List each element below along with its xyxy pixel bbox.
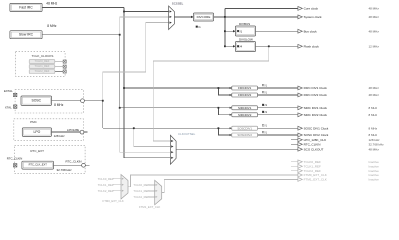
svg-text:FTM1_EXT_CLK: FTM1_EXT_CLK — [304, 178, 327, 182]
block DIVCORE — [193, 13, 213, 21]
input arrow CLKOUTSEL in1 — [171, 140, 173, 142]
svg-text:Inactive: Inactive — [369, 178, 380, 182]
block TCLK2_REF source — [29, 69, 55, 73]
svg-text:FIRCDIV1: FIRCDIV1 — [238, 86, 252, 90]
input arrow SCSSEL in1 — [170, 10, 172, 12]
svg-text:/4: /4 — [240, 45, 243, 49]
block RTC_CLK_EXT — [22, 161, 54, 169]
svg-text:48 MHz: 48 MHz — [369, 7, 380, 11]
svg-text:48 MHz: 48 MHz — [369, 147, 380, 151]
wire SIRC grey down to CLKOUTSEL in3 — [120, 108, 171, 152]
value FIRCDIV2 value — [262, 90, 267, 94]
junction FIRC-SCSSEL tap — [123, 11, 125, 13]
svg-text:RTC_EXT: RTC_EXT — [30, 149, 44, 153]
svg-text:TCLK0_REF: TCLK0_REF — [304, 160, 321, 164]
junction system bus node — [224, 16, 226, 18]
output arrow SIRC DIV1 Clock — [298, 106, 302, 110]
block SOSCDIV2 — [232, 133, 258, 137]
svg-text:SOSC: SOSC — [31, 99, 41, 103]
block DIVSLOW — [235, 42, 255, 52]
mux CLKOUTSEL — [170, 135, 176, 164]
svg-text:TCLK1_REF: TCLK1_REF — [133, 189, 149, 193]
input arrow SOSCDIV2 in — [230, 134, 232, 136]
svg-text:XTAL: XTAL — [5, 106, 12, 110]
svg-text:TCLK_CLOCKS: TCLK_CLOCKS — [32, 54, 54, 58]
wire TCLK2_REF stub — [291, 170, 298, 172]
junction SIRC corner — [119, 34, 121, 36]
pin RTC_CLKIN — [14, 164, 17, 167]
svg-text:TCLK0_REF: TCLK0_REF — [35, 59, 50, 63]
wire FTM1 mux in0 stub — [148, 184, 154, 186]
block TCLK1_REF source — [29, 64, 55, 68]
wire Core clock row — [225, 7, 298, 9]
svg-text:System clock: System clock — [304, 15, 322, 19]
svg-text:48 MHz: 48 MHz — [369, 29, 380, 33]
svg-text:TCLK1_REF: TCLK1_REF — [35, 64, 50, 68]
svg-text:RTC_CLKIN: RTC_CLKIN — [304, 142, 321, 146]
wire SOSC DIV2 output row — [258, 134, 298, 136]
svg-text:32.768 kHz: 32.768 kHz — [57, 168, 73, 172]
svg-text:RTC_CLKIN: RTC_CLKIN — [66, 160, 82, 164]
svg-text:12 MHz: 12 MHz — [369, 44, 380, 48]
junction slow clock tap — [268, 45, 270, 47]
block DIVBUS — [235, 26, 255, 36]
mux FTM1_EXT_CLK mux — [155, 180, 162, 205]
block SIRCDIV1 — [232, 106, 258, 110]
wire Flash clock row — [256, 45, 298, 47]
wire FIRC DIV1 output row — [258, 87, 298, 89]
wire SIRC vertical — [119, 35, 121, 108]
wire SIRC grey up to SCSSEL in2 — [120, 17, 169, 35]
output arrow TCLK0_REF — [298, 160, 302, 164]
input arrow DIVSLOW arrow — [233, 45, 236, 47]
block SOSC — [21, 96, 52, 105]
wire TCLK0_REF stub — [291, 161, 298, 163]
svg-text:8 MHz: 8 MHz — [369, 133, 378, 137]
wire DIVSLOW in — [225, 45, 235, 47]
output arrow LPO_128K_CLK — [298, 138, 302, 142]
input arrow SOSCDIV1 in — [230, 127, 232, 129]
svg-text:DIVCORE: DIVCORE — [197, 15, 211, 19]
svg-text:8 MHz: 8 MHz — [369, 126, 378, 130]
svg-text:SOSC DIV1 Clock: SOSC DIV1 Clock — [304, 126, 329, 130]
input arrow FTM1 mux in0 — [156, 184, 158, 186]
junction SOSC corner — [102, 100, 104, 102]
svg-text:Flash clock: Flash clock — [304, 44, 320, 48]
block Fast IRC — [10, 3, 42, 11]
svg-text:FIRC DIV2 Clock: FIRC DIV2 Clock — [304, 93, 328, 97]
value DIVSLOW value — [237, 45, 242, 49]
junction SIRCDIV bracket node — [218, 107, 220, 109]
svg-text:8 MHz: 8 MHz — [54, 103, 64, 107]
svg-text:8 MHz: 8 MHz — [47, 24, 57, 28]
output arrow FIRC DIV2 Clock — [298, 93, 302, 97]
svg-text:8 MHz: 8 MHz — [369, 113, 378, 117]
wire FTM0_EXT_CLK output — [128, 175, 298, 187]
input arrow CLKOUTSEL in2 — [171, 145, 173, 147]
svg-text:SCSSEL: SCSSEL — [172, 1, 184, 5]
input arrow FIRCDIV2 in — [230, 94, 232, 96]
svg-text:48 MHz: 48 MHz — [369, 93, 380, 97]
junction FIRCDIV bracket node — [218, 87, 220, 89]
svg-text:/1: /1 — [240, 29, 243, 33]
wire SOSC to SOSCDIV row — [103, 127, 219, 129]
wire FTM1_EXT_CLK output — [162, 179, 298, 192]
wire FIRC to CLKOUTSEL in4 — [124, 157, 171, 159]
svg-text:48 MHz: 48 MHz — [46, 2, 57, 6]
wire TCLK1_REF stub — [291, 165, 298, 167]
svg-text:/1: /1 — [265, 90, 268, 94]
wire FTM1 mux in2 stub — [148, 196, 154, 198]
value DIVBUS value — [237, 29, 242, 33]
wire FTM0 mux in1 stub — [113, 184, 121, 186]
input arrow FTM0 mux in2 — [122, 190, 124, 192]
wire DIVBUS in — [225, 30, 235, 32]
node SOSC enable node — [81, 99, 85, 103]
pin TCLK0 pin — [63, 60, 66, 63]
svg-text:FIRCDIV2: FIRCDIV2 — [238, 93, 252, 97]
input arrow FTM0 mux in1 — [122, 184, 124, 186]
wire SOSCDIV1 stub — [218, 127, 231, 129]
wire FIRC vertical — [123, 7, 125, 157]
wire Bus clock row — [256, 30, 298, 32]
input arrow FIRCDIV1 in — [230, 87, 232, 89]
value SOSCDIV2 value — [262, 130, 267, 134]
wire SIRC DIV2 output row — [258, 114, 298, 116]
input arrow DIVCORE in — [191, 16, 194, 18]
block SOSCDIV1 — [232, 126, 258, 130]
value SOSCDIV1 value — [262, 124, 267, 128]
svg-text:/1: /1 — [265, 124, 268, 128]
svg-text:LPO_128K_CLK: LPO_128K_CLK — [304, 138, 327, 142]
input arrow FTM0 mux in0 — [122, 178, 124, 180]
wire TCLK1 pin stub — [55, 66, 63, 68]
svg-text:Core clock: Core clock — [304, 7, 319, 11]
svg-text:Inactive: Inactive — [369, 173, 380, 177]
svg-text:SOSCDIV1: SOSCDIV1 — [237, 126, 252, 130]
svg-text:DIVBUS: DIVBUS — [239, 22, 250, 26]
svg-text:FTM1_EXT_CLK: FTM1_EXT_CLK — [139, 205, 160, 209]
wire SOSC down — [102, 101, 104, 129]
svg-text:SIRC DIV1 Clock: SIRC DIV1 Clock — [304, 106, 328, 110]
svg-text:/1: /1 — [265, 110, 268, 114]
output arrow Flash clock — [298, 44, 302, 48]
value FIRCDIV1 value — [262, 83, 267, 87]
wire LPO_128K_CLK stub — [291, 139, 298, 141]
svg-text:SIRCDIV2: SIRCDIV2 — [238, 113, 252, 117]
svg-text:FIRC DIV1 Clock: FIRC DIV1 Clock — [304, 86, 328, 90]
input arrow CLKOUTSEL in3 — [171, 151, 173, 153]
wire SIRC horizontal — [42, 34, 120, 36]
group box SOSC_EXT — [15, 90, 83, 113]
svg-text:128 kHz: 128 kHz — [369, 138, 381, 142]
svg-text:DIVSLOW: DIVSLOW — [239, 38, 253, 42]
wire FIRCDIV1 stub — [218, 87, 231, 89]
wire FTM0 mux in0 stub — [113, 178, 121, 180]
svg-text:TCLK0_REF: TCLK0_REF — [133, 183, 149, 187]
svg-text:EXTAL: EXTAL — [4, 89, 13, 93]
svg-text:/1: /1 — [265, 83, 268, 87]
output arrow System clock — [298, 15, 302, 19]
input arrow SCSSEL in2 — [170, 16, 172, 18]
svg-text:TCLK2_REF: TCLK2_REF — [98, 189, 114, 193]
wire LPO output — [52, 131, 88, 133]
wire FIRC DIV2 output row — [258, 94, 298, 96]
wire FIRC horizontal — [42, 6, 124, 8]
input arrow DIVBUS arrow — [233, 30, 236, 32]
group box PMC — [14, 119, 84, 141]
wire SCG CLKOUT row — [176, 148, 298, 150]
svg-text:SOSC DIV2 Clock: SOSC DIV2 Clock — [304, 133, 329, 137]
block SIRCDIV2 — [232, 113, 258, 117]
svg-text:TCLK0_REF: TCLK0_REF — [98, 177, 114, 181]
output arrow TCLK2_REF — [298, 169, 302, 173]
input arrow CLKOUTSEL in4 — [171, 157, 173, 159]
svg-text:TCLK1_REF: TCLK1_REF — [98, 183, 114, 187]
node LPO enable node — [80, 130, 84, 134]
svg-text:CLKOUTSEL: CLKOUTSEL — [178, 132, 196, 136]
svg-text:/1: /1 — [265, 130, 268, 134]
node RTC enable node — [82, 163, 86, 167]
wire SIRC DIV1 output row — [258, 107, 298, 109]
wire FTM0 mux in2 stub — [113, 190, 121, 192]
wire SCSSEL out to DIVCORE — [174, 16, 193, 18]
junction SOSC-CLKOUT tap — [133, 127, 135, 129]
output arrow SOSC DIV1 Clock — [298, 126, 302, 130]
pin TCLK1 pin — [63, 65, 66, 68]
junction DIVSLOW tap — [224, 45, 226, 47]
junction DIVBUS tap — [224, 30, 226, 32]
group box TCLK_CLOCKS — [16, 52, 66, 77]
value DIVCORE value — [196, 25, 201, 29]
wire FIRC to SCSSEL in1 — [124, 11, 169, 13]
svg-text:48 MHz: 48 MHz — [369, 15, 380, 19]
wire SIRC to SIRCDIV row — [120, 107, 219, 109]
wire System clock row — [225, 16, 298, 18]
wire SOSC grey tap to SCSSEL in3 — [103, 23, 169, 101]
svg-text:Inactive: Inactive — [369, 164, 380, 168]
wire SIRCDIV bracket — [218, 108, 231, 115]
svg-text:LPO128k: LPO128k — [67, 128, 80, 132]
wire SOSC horizontal — [52, 100, 103, 102]
mux FTM0_EXT_CLK mux — [121, 175, 128, 200]
svg-text:LPO: LPO — [34, 130, 41, 134]
wire SOSCDIV bracket — [218, 128, 231, 135]
svg-text:RTC_CLKIN: RTC_CLKIN — [7, 156, 22, 160]
svg-text:FTM0_EXT_CLK: FTM0_EXT_CLK — [304, 173, 327, 177]
svg-text:PMC: PMC — [30, 120, 38, 124]
svg-text:8 MHz: 8 MHz — [369, 106, 378, 110]
wire SIRCDIV1 stub — [218, 107, 231, 109]
wire FIRCDIV bracket — [218, 88, 231, 95]
group box RTC_EXT — [15, 145, 86, 173]
svg-text:/1: /1 — [198, 25, 201, 29]
svg-text:SIRC DIV2 Clock: SIRC DIV2 Clock — [304, 113, 328, 117]
svg-text:Slow IRC: Slow IRC — [19, 33, 34, 37]
input arrow SIRCDIV2 in — [230, 114, 232, 116]
svg-text:RTC_CLK_EXT: RTC_CLK_EXT — [29, 163, 48, 167]
svg-text:48 MHz: 48 MHz — [369, 86, 380, 90]
output arrow FTM1_EXT_CLK — [298, 178, 302, 182]
svg-text:Bus clock: Bus clock — [304, 29, 318, 33]
output arrow SOSC DIV2 Clock — [298, 133, 302, 137]
block LPO — [22, 128, 51, 136]
wire SOSC grey tap to CLKOUTSEL in2 — [134, 128, 171, 146]
wire RTC_CLKIN stub — [291, 143, 298, 145]
output arrow FTM0_EXT_CLK — [298, 173, 302, 177]
block Slow IRC — [10, 31, 42, 39]
wire DIVCORE out — [214, 16, 225, 18]
output arrow SCG CLKOUT — [298, 147, 302, 151]
output arrow RTC_CLKIN — [298, 142, 302, 146]
input arrow SCSSEL in3 — [170, 22, 172, 24]
svg-text:TCLK2_REF: TCLK2_REF — [35, 69, 50, 73]
wire system clock bus vertical — [224, 8, 226, 46]
block FIRCDIV1 — [232, 86, 258, 90]
pin TCLK2 pin — [63, 70, 66, 73]
svg-text:128 kHz: 128 kHz — [54, 134, 66, 138]
svg-text:/1: /1 — [265, 103, 268, 107]
output arrow SIRC DIV2 Clock — [298, 113, 302, 117]
svg-text:TCLK2_REF: TCLK2_REF — [133, 195, 149, 199]
mux SCSSEL — [169, 6, 175, 30]
wire slow clock grey tap to CLKOUTSEL in1 — [153, 46, 269, 141]
value SIRCDIV2 value — [262, 110, 267, 114]
block TCLK0_REF source — [29, 59, 55, 63]
input arrow SIRCDIV1 in — [230, 107, 232, 109]
input arrow FTM1 mux in1 — [156, 190, 158, 192]
input arrow FTM1 mux in2 — [156, 196, 158, 198]
svg-text:TCLK1_REF: TCLK1_REF — [304, 164, 321, 168]
junction FIRC-FIRCDIV tap — [123, 87, 125, 89]
svg-text:FTM0_EXT_CLK: FTM0_EXT_CLK — [103, 199, 124, 203]
output arrow TCLK1_REF — [298, 164, 302, 168]
output arrow Core clock — [298, 7, 302, 11]
output arrow Bus clock — [298, 29, 302, 33]
wire FTM1 mux in1 stub — [148, 190, 154, 192]
wire TCLK0 pin stub — [55, 61, 63, 63]
pin XTAL — [14, 105, 17, 108]
svg-text:Inactive: Inactive — [369, 160, 380, 164]
wire FIRC to FIRCDIV row — [124, 87, 218, 89]
pin EXTAL — [14, 93, 17, 96]
svg-text:SCG CLKOUT: SCG CLKOUT — [304, 147, 324, 151]
junction SIRC-SIRCDIV tap — [119, 107, 121, 109]
wire RTC_CLK_EXT output — [54, 164, 90, 166]
value SIRCDIV1 value — [262, 103, 267, 107]
svg-text:SIRCDIV1: SIRCDIV1 — [238, 106, 252, 110]
block FIRCDIV2 — [232, 93, 258, 97]
svg-text:SOSCDIV2: SOSCDIV2 — [237, 133, 252, 137]
output arrow FIRC DIV1 Clock — [298, 86, 302, 90]
wire SOSC DIV1 output row — [258, 127, 298, 129]
svg-text:Fast IRC: Fast IRC — [19, 5, 33, 9]
wire TCLK2 pin stub — [55, 71, 63, 73]
svg-text:32.768 kHz: 32.768 kHz — [369, 142, 385, 146]
junction SOSCDIV bracket node — [218, 127, 220, 129]
